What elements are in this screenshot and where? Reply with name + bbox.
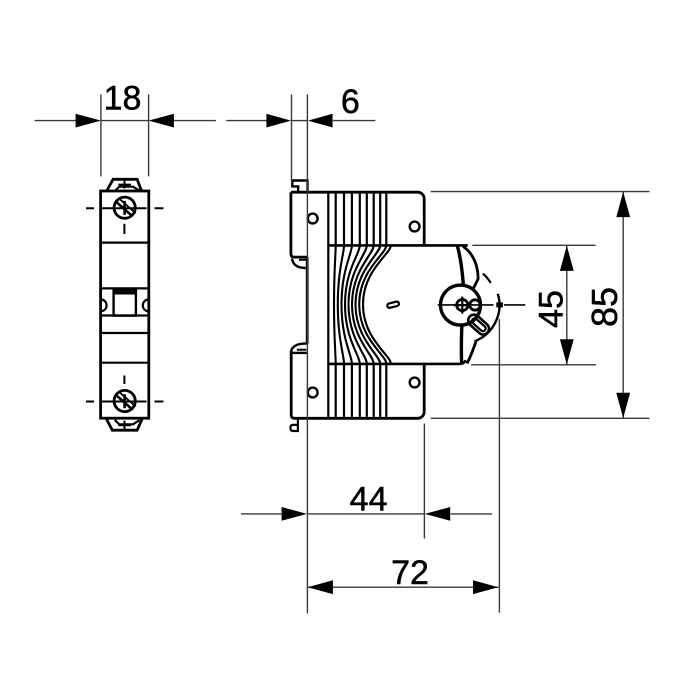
side view front outer edge lower bbox=[467, 340, 476, 363]
side view rib arcs middle bbox=[334, 245, 391, 363]
side view screw hole bottom-left bbox=[308, 388, 318, 398]
dim 44 line right bbox=[451, 513, 493, 515]
side view marking slot bbox=[387, 301, 400, 308]
svg-text:72: 72 bbox=[391, 554, 429, 592]
front view top screw centerline vertical below bbox=[123, 224, 125, 234]
front view horizontal body line 3 bbox=[101, 314, 149, 316]
dim 45 extension line top bbox=[472, 244, 595, 246]
dim 85 arrow bottom bbox=[616, 393, 630, 418]
dim 18 line left bbox=[35, 120, 76, 122]
dim 6 arrow right bbox=[308, 114, 333, 128]
front view left side notch bbox=[101, 299, 107, 311]
side view front outer edge upper bbox=[463, 246, 478, 290]
dim 45 line bbox=[566, 245, 568, 364]
front view bottom screw slot second line bbox=[119, 392, 135, 407]
side view screw hole top-right bbox=[410, 222, 420, 232]
side view top DIN hook bbox=[292, 181, 307, 193]
dim 44 arrow right bbox=[425, 507, 450, 521]
dim 18 extension line right bbox=[148, 94, 150, 176]
svg-text:18: 18 bbox=[104, 80, 142, 118]
dim 44 arrow left bbox=[282, 507, 307, 521]
dim 72 line bbox=[307, 586, 498, 588]
front view toggle handle top bar bbox=[114, 291, 136, 294]
side view upper recess lip inner line bbox=[299, 259, 307, 261]
dim 18 line right bbox=[174, 120, 216, 122]
side view knob second circle bbox=[470, 300, 480, 310]
front view right side notch bbox=[143, 299, 149, 311]
side view lower clip top edge bbox=[292, 352, 308, 354]
side view lower clip bump arc bbox=[291, 344, 307, 352]
front view top screw slot second line bbox=[119, 199, 135, 214]
dim 45 arrow bottom bbox=[560, 339, 574, 364]
dim 18 line middle bbox=[101, 120, 149, 122]
side view ribs lower block bbox=[336, 364, 387, 417]
dim 44 line middle bbox=[307, 513, 424, 515]
front view bottom screw centerline vertical above bbox=[123, 376, 125, 385]
dim 6 extension line left bbox=[291, 94, 293, 183]
dim 85 line bbox=[622, 192, 624, 419]
side view lower clip bump inner line bbox=[297, 349, 307, 351]
side view ribs upper block bbox=[328, 194, 386, 417]
dim 72 extension line right (from lever tip) bbox=[498, 319, 500, 613]
side view upper left edge bbox=[291, 192, 307, 257]
side view front inner edge upper bbox=[457, 246, 463, 286]
front view body outline bbox=[101, 191, 149, 418]
side view upper recess lip arc bbox=[292, 259, 306, 268]
side view screw hole top-left bbox=[308, 214, 318, 224]
dim 72 arrow left bbox=[308, 580, 333, 594]
front view horizontal body line 1 bbox=[101, 242, 149, 244]
svg-text:6: 6 bbox=[341, 83, 360, 121]
dim 85 extension line top bbox=[431, 191, 650, 193]
front view top screw head bbox=[114, 197, 135, 218]
front view horizontal body line 2 bbox=[101, 287, 149, 289]
front view bottom screw head bbox=[114, 390, 135, 411]
side view knob center mark cross bbox=[454, 297, 471, 314]
side view toggle lever inner bbox=[471, 317, 487, 332]
front view toggle handle bbox=[114, 290, 136, 315]
side view recess back face bbox=[306, 257, 309, 344]
side view knob circle bbox=[441, 285, 481, 325]
front view horizontal body line 4 bbox=[101, 332, 149, 334]
side view middle section bottom edge bbox=[329, 360, 465, 364]
side view lever path arc dashed bbox=[483, 274, 491, 283]
svg-text:45: 45 bbox=[532, 290, 570, 328]
front view bottom screw slot bbox=[116, 394, 133, 409]
side view upper right edge bbox=[423, 199, 426, 246]
front view top screw slot bbox=[116, 201, 133, 216]
dim 72 arrow right bbox=[473, 580, 498, 594]
front view horizontal body line 5 bbox=[101, 362, 149, 364]
side view clip release foot bbox=[290, 419, 298, 432]
side view middle section top edge bbox=[329, 244, 468, 247]
dim 6 line right bbox=[333, 120, 375, 122]
side view front inner edge lower bbox=[460, 325, 464, 363]
front view bottom terminal centerline vertical bbox=[118, 421, 131, 430]
dim 6 arrow left bbox=[266, 114, 291, 128]
front view top terminal centerline vertical bbox=[118, 181, 131, 189]
dim 6 extension line right (long) bbox=[306, 94, 308, 613]
side view screw hole bottom-right bbox=[410, 378, 420, 388]
side view knob centerline tick bbox=[496, 302, 503, 307]
dim 44 extension line right bbox=[423, 424, 425, 539]
dim 85 extension line bottom bbox=[431, 417, 650, 419]
front view top terminal inner line bbox=[115, 187, 140, 191]
dim 6 line middle bbox=[292, 120, 308, 122]
dim 18 extension line left bbox=[100, 94, 102, 176]
dim 85 arrow top bbox=[616, 192, 630, 217]
dim 45 extension line bottom bbox=[471, 364, 596, 366]
front view bottom terminal inner line bbox=[115, 420, 140, 425]
side view bottom edge bbox=[295, 412, 425, 418]
side view lower clip body bbox=[291, 351, 294, 419]
dim 44 line left bbox=[241, 513, 282, 515]
side view knob center mark circle bbox=[457, 300, 468, 311]
svg-text:44: 44 bbox=[350, 481, 388, 519]
front view bottom terminal trapezoid bbox=[107, 419, 142, 430]
dim 45 arrow top bbox=[560, 246, 574, 271]
dim 18 arrow right bbox=[149, 114, 174, 128]
svg-text:85: 85 bbox=[584, 287, 625, 327]
dim 18 arrow left bbox=[76, 114, 101, 128]
side view top edge bbox=[291, 192, 424, 199]
side view knob centerline bbox=[438, 304, 526, 306]
front view bottom screw centerline horizontal bbox=[86, 401, 164, 403]
front view top terminal trapezoid bbox=[107, 179, 142, 191]
side view lower right edge bbox=[423, 364, 426, 412]
side view toggle lever outer bbox=[466, 312, 492, 337]
front view top screw centerline horizontal bbox=[86, 207, 164, 209]
dim 6 line left bbox=[226, 120, 267, 122]
side view lever path arc solid bbox=[475, 294, 500, 342]
